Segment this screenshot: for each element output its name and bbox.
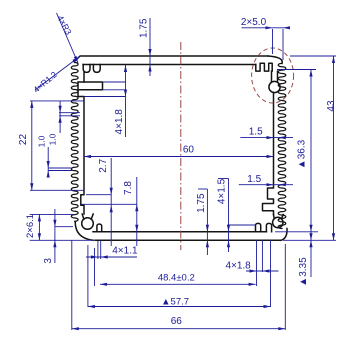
arrowhead [124, 90, 127, 97]
dim 1.0 lower: tick a [48, 167, 72, 169]
arrowhead [30, 101, 33, 108]
dim 1.0 upper: tick b [59, 115, 80, 117]
arrowhead [206, 240, 209, 247]
leader 4xR1.2 [35, 57, 79, 90]
dim 36.3: top ext [277, 69, 316, 71]
arrowhead [332, 56, 335, 63]
svg-text:66: 66 [171, 316, 183, 327]
profile: bottom-right outer corner arc [281, 229, 287, 241]
arrowhead [279, 183, 286, 186]
dim 4x1.1: ext 2 [100, 241, 102, 259]
dim 4x1.8 bottom: dim line [246, 270, 279, 272]
profile: right wall inner edge with slots [263, 93, 274, 215]
profile: 4x1.1 nub on bottom wall [97, 224, 102, 232]
arrowhead [279, 136, 286, 139]
dim 57.7: left ext [87, 245, 89, 307]
profile: top-left PCB rail [78, 82, 103, 90]
arrowhead [332, 233, 335, 240]
arrowhead [262, 269, 269, 272]
arrowhead [264, 305, 271, 308]
dim 4x1.5: tick [218, 178, 229, 180]
dim 1.0 lower: leader line [47, 147, 49, 177]
dim 4x1.5: dim line [228, 179, 230, 253]
arrowhead [91, 255, 98, 258]
dim 1.75 bottom: dim line [206, 189, 208, 255]
svg-text:2×5.0: 2×5.0 [241, 17, 267, 28]
svg-text:22: 22 [18, 134, 29, 146]
dim 2x5.0: ext line 1 [272, 29, 274, 54]
arrowhead [250, 269, 257, 272]
profile: top-right screw channel neck [272, 71, 278, 82]
arrowhead [135, 225, 138, 232]
dim 66: left ext [71, 240, 73, 330]
dim 57.7: right ext [270, 240, 272, 307]
arrowhead [47, 161, 50, 168]
dim 22: top ext [30, 100, 84, 102]
dim 2x6.1: top ext [30, 213, 74, 215]
arrowhead [101, 255, 108, 258]
svg-text:2.7: 2.7 [98, 158, 109, 172]
dim 36.3/3.35: dim line [310, 70, 312, 278]
arrowhead [88, 305, 95, 308]
svg-text:1.5: 1.5 [247, 174, 261, 185]
dim 60: dim line [84, 156, 274, 158]
dim shelf line [228, 224, 256, 226]
dim 4x1.8 left: dim line [125, 65, 127, 137]
svg-text:3: 3 [43, 258, 54, 264]
dim 7.8: ext [81, 203, 137, 205]
svg-text:4×1.8: 4×1.8 [114, 109, 125, 135]
svg-text:48.4±0.2: 48.4±0.2 [158, 273, 195, 284]
dim 4x1.8 left: ext rail bottom [103, 89, 126, 91]
dim 57.7: dim line [88, 306, 271, 308]
arrowhead [278, 327, 285, 330]
dim 66: right ext [284, 244, 286, 330]
profile: top wall outer edge with left chamfer [74, 56, 268, 62]
profile: bottom-left screw boss circle [82, 218, 94, 230]
arrowhead [124, 65, 127, 72]
leader 4xR3 [57, 13, 79, 63]
dim 4x1.8 left: ext rail top [103, 81, 126, 83]
profile: bottom-right nubs [256, 223, 272, 231]
arrowhead [74, 56, 80, 64]
dim 4x1.1: dim line [86, 256, 137, 258]
profile: bottom-right screw boss neck [274, 215, 284, 219]
arrowhead [227, 225, 230, 232]
arrowhead [47, 171, 50, 178]
svg-text:1.5: 1.5 [249, 127, 263, 138]
profile: top-right outer corner arc [268, 56, 282, 64]
arrowhead [309, 70, 312, 77]
dim 1.0 upper: leader line [59, 101, 61, 133]
dim 1.0 upper: tick a [59, 112, 80, 114]
svg-text:▲57.7: ▲57.7 [161, 297, 189, 308]
dim 43: dim line [333, 56, 335, 240]
arrowhead [84, 155, 91, 158]
profile: bottom-left outer corner arc [75, 222, 93, 241]
dim 3: tick [55, 226, 73, 228]
dim 3.35: top ext [275, 231, 318, 233]
svg-text:1.0: 1.0 [48, 133, 58, 145]
arrowhead [266, 26, 273, 29]
dim 2x6.1: bottom ext [30, 239, 94, 241]
dim 4x1.1: ext 1 [97, 241, 99, 259]
arrowhead [267, 183, 274, 186]
profile: bottom wall outer edge [95, 239, 281, 241]
dim 22: dim line [31, 101, 33, 190]
svg-text:4×1.1: 4×1.1 [112, 246, 138, 257]
profile: top wall inner edge [83, 64, 256, 66]
arrowhead [227, 240, 230, 247]
dim 3: dim line [54, 209, 56, 263]
detail circle (dashed ellipse around top-right corner) [252, 48, 294, 103]
dim 7.8: dim line [136, 177, 138, 246]
dim 66: dim line [72, 328, 285, 330]
svg-text:▲36.3: ▲36.3 [297, 139, 308, 169]
arrowhead [309, 240, 312, 247]
dim 48.4: dim line [100, 283, 256, 285]
arrowhead [148, 49, 151, 56]
svg-text:▲3.35: ▲3.35 [298, 257, 309, 287]
arrowhead [53, 240, 56, 247]
dim 4x1.8 left: ext slot bottom [84, 96, 126, 98]
arrowhead [110, 205, 113, 212]
svg-text:4×1.5: 4×1.5 [217, 178, 228, 204]
arrowhead [283, 26, 290, 29]
profile: bottom-right screw boss circle [273, 217, 283, 227]
dim 1.5 upper: dim line [240, 137, 293, 139]
arrowhead [59, 116, 62, 123]
dim 43: top ext [290, 55, 336, 57]
arrowhead [59, 106, 62, 113]
arrowhead [100, 283, 107, 286]
dim 1.75 top: line [149, 18, 151, 76]
arrowhead [38, 214, 41, 221]
dim 2x5.0: ext line 2 [282, 29, 284, 60]
svg-text:1.75: 1.75 [139, 18, 150, 38]
dim 2x6.1: dim line [38, 214, 40, 240]
svg-text:1.0: 1.0 [37, 135, 47, 147]
svg-text:60: 60 [183, 145, 195, 156]
arrowhead [206, 225, 209, 232]
arrowhead [267, 155, 274, 158]
arrowhead [38, 233, 41, 240]
svg-text:4×1.8: 4×1.8 [225, 261, 251, 272]
arrowhead [309, 233, 312, 240]
profile: right wall outer fins [278, 63, 286, 228]
arrowhead [148, 65, 151, 72]
dim 2.7: top ext [86, 194, 111, 196]
arrowhead [30, 183, 33, 190]
dim 43: bottom ext [283, 239, 336, 241]
profile: top-right corner castellation teeth [256, 63, 272, 71]
arrowhead [72, 327, 79, 330]
profile: left wall outer fins [71, 63, 78, 222]
svg-text:2×6.1: 2×6.1 [25, 214, 36, 238]
arrowhead [309, 225, 312, 232]
arrowhead [135, 204, 138, 211]
arrowhead [249, 283, 256, 286]
svg-text:1.75: 1.75 [196, 193, 207, 213]
dim 2.7: dim line [110, 158, 112, 246]
dim 1.0 lower: tick b [48, 170, 72, 172]
dim 22: bottom ext [30, 189, 84, 191]
dim 4x1.8 bottom: ext 1 [256, 240, 258, 286]
arrowhead [72, 56, 80, 63]
profile: bottom wall inner edge [93, 231, 266, 233]
profile: top-left screw channel fingers [83, 65, 100, 73]
profile: left wall inner edge with PCB rail and slots [78, 73, 84, 215]
arrowhead [267, 136, 274, 139]
profile: bottom-left screw boss neck [82, 214, 93, 219]
svg-text:43: 43 [326, 100, 337, 112]
svg-text:7.8: 7.8 [123, 181, 134, 195]
dim 1.5 lower: dim line [239, 184, 293, 186]
dim 1.75 bottom: tick [198, 188, 207, 190]
arrowhead [110, 188, 113, 195]
dim 48.4: left ext [94, 248, 96, 286]
dim 4x1.8 bottom: ext 2 [261, 240, 263, 272]
arrowhead [53, 220, 56, 227]
centerline (vertical dash-dot) [180, 42, 182, 250]
profile: top-right screw boss circle [269, 81, 280, 92]
dim 2x5.0: dim line [242, 27, 290, 29]
